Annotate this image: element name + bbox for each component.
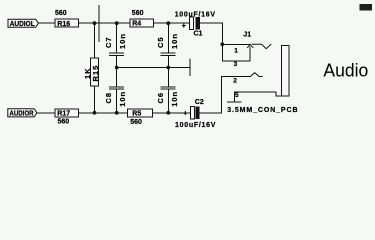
wire J1 pin 5 (shield) [234, 92, 281, 96]
J1 tip contact line pin1 [252, 44, 271, 48]
resistor R15 (vertical) [94, 23, 96, 58]
wire J1 pin 3 loop [222, 44, 250, 61]
node I junction (C6 bottom) [166, 111, 170, 115]
node A junction (R15 tap) [93, 21, 97, 25]
node B junction (C7 tap) [115, 21, 119, 25]
svg-text:560: 560 [130, 119, 142, 126]
svg-text:10n: 10n [118, 91, 127, 107]
svg-text:10n: 10n [170, 33, 179, 49]
resistor R16 [55, 19, 78, 27]
svg-text:AUDIOR: AUDIOR [9, 111, 33, 118]
svg-text:100uF/16V: 100uF/16V [175, 122, 216, 129]
wire R16 to node A [79, 22, 130, 24]
resistor R5 [128, 109, 153, 117]
wire R4 to node C [154, 22, 190, 24]
svg-text:R4: R4 [132, 21, 141, 28]
resistor R17 [55, 109, 78, 117]
svg-text:C7: C7 [104, 36, 113, 48]
svg-text:1: 1 [234, 47, 238, 54]
wire AUDIOR to R17 [37, 112, 55, 114]
J1 body [282, 46, 290, 96]
svg-text:100uF/16V: 100uF/16V [175, 12, 216, 19]
node E junction (C7/C8) [115, 66, 119, 70]
svg-text:2: 2 [233, 78, 237, 85]
wire R5 to C2 [153, 112, 191, 114]
svg-text:C2: C2 [195, 99, 204, 106]
node C junction (C5 tap) [166, 21, 170, 25]
svg-text:+: + [182, 23, 186, 30]
svg-text:5: 5 [235, 92, 239, 99]
svg-text:560: 560 [55, 10, 67, 17]
node H junction (C8 bottom) [115, 111, 119, 115]
svg-text:C1: C1 [194, 30, 203, 37]
svg-text:C8: C8 [104, 92, 113, 104]
wire middle rail [117, 67, 190, 69]
node D junction (pin1/pin3) [220, 42, 224, 46]
wire C2 to J1 pin 2 [199, 112, 221, 114]
net label AUDIOL [8, 19, 38, 27]
J1 switch arrow pin1 [248, 44, 253, 47]
ground GND [227, 101, 241, 103]
wire dangling vertical [98, 6, 100, 42]
svg-text:AUDIOL: AUDIOL [10, 21, 36, 28]
svg-text:3: 3 [234, 61, 238, 68]
capacitor C1 plates [190, 17, 194, 29]
svg-text:Audio: Audio [323, 59, 368, 80]
svg-text:10n: 10n [118, 33, 127, 49]
capacitor C2 plates [191, 107, 195, 119]
svg-text:R16: R16 [57, 21, 70, 28]
svg-text:R15: R15 [91, 65, 100, 82]
wire J1 pin 2 [222, 77, 251, 113]
svg-text:C6: C6 [156, 92, 165, 104]
wire R17 to R5 [79, 112, 128, 114]
svg-text:C5: C5 [156, 36, 165, 48]
wire C1 to J1 pin 1 [200, 23, 222, 44]
capacitor C5 [167, 23, 169, 52]
svg-text:+: + [183, 110, 187, 117]
capacitor C8 [116, 68, 118, 87]
capacitor C6 [167, 68, 169, 87]
svg-text:R17: R17 [57, 111, 70, 118]
svg-text:3.5MM_CON_PCB: 3.5MM_CON_PCB [227, 107, 298, 114]
node G junction (R15 bottom) [93, 111, 97, 115]
svg-text:10n: 10n [170, 91, 179, 107]
terminal plate (rail end) [189, 59, 191, 76]
capacitor C7 [116, 23, 118, 52]
resistor R4 [130, 19, 154, 27]
J1 ring contact pin2 [250, 73, 262, 77]
svg-text:J1: J1 [243, 32, 251, 39]
svg-text:560: 560 [58, 118, 70, 125]
wire J1 pin 1 [222, 43, 250, 45]
screenshot artifact box (top-right) [360, 4, 373, 11]
svg-text:560: 560 [132, 10, 144, 17]
net label AUDIOR [8, 109, 37, 117]
svg-text:R5: R5 [132, 110, 141, 117]
node F junction (C5/C6) [166, 66, 170, 70]
wire AUDIOL to R16 [38, 22, 55, 24]
